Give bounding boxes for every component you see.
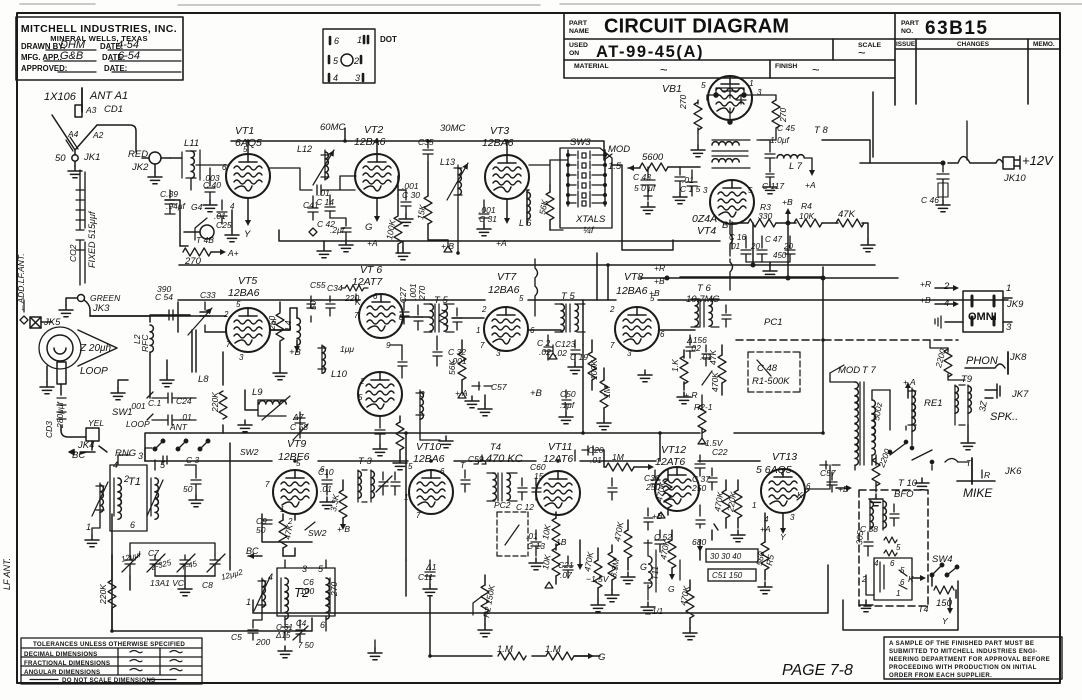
svg-text:T: T (966, 458, 972, 468)
svg-text:JK6: JK6 (1004, 466, 1022, 477)
svg-text:VT12: VT12 (661, 444, 686, 456)
svg-text:6: 6 (440, 467, 445, 476)
svg-text:RNG: RNG (115, 448, 136, 459)
svg-text:280μμf: 280μμf (55, 401, 65, 429)
svg-text:.01: .01 (590, 455, 602, 465)
svg-text:.01: .01 (526, 531, 538, 541)
svg-text:+ R: + R (684, 390, 697, 400)
svg-text:C 13: C 13 (527, 541, 545, 551)
svg-text:3: 3 (496, 349, 501, 358)
svg-text:.003: .003 (203, 173, 220, 183)
svg-text:1: 1 (280, 505, 284, 514)
svg-text:R: R (984, 470, 990, 480)
svg-text:470K: 470K (712, 491, 725, 513)
svg-text:Y: Y (244, 229, 251, 240)
svg-text:T 7: T 7 (862, 365, 876, 376)
svg-text:220K: 220K (725, 491, 739, 514)
svg-text:4: 4 (874, 559, 879, 568)
svg-text:−1.5V: −1.5V (586, 574, 610, 584)
svg-text:+A: +A (496, 238, 507, 248)
svg-text:1: 1 (1006, 283, 1011, 294)
svg-text:C34: C34 (327, 283, 343, 293)
svg-text:150: 150 (936, 598, 953, 609)
svg-text:A4: A4 (67, 129, 79, 139)
svg-text:T 3: T 3 (358, 456, 372, 467)
svg-text:1.0μf: 1.0μf (770, 135, 790, 145)
svg-text:L12: L12 (297, 144, 312, 154)
svg-text:C25: C25 (216, 220, 232, 230)
svg-text:2: 2 (223, 310, 229, 319)
svg-text:7 50: 7 50 (298, 641, 314, 650)
svg-text:6AQ5: 6AQ5 (235, 137, 262, 149)
svg-text:3: 3 (420, 390, 425, 399)
svg-text:2: 2 (359, 377, 365, 386)
svg-text:4: 4 (113, 460, 118, 470)
svg-text:VT3: VT3 (490, 125, 509, 137)
svg-text:C5: C5 (231, 632, 242, 642)
svg-text:15K: 15K (415, 203, 428, 220)
svg-text:+A: +A (760, 524, 771, 534)
svg-text:2: 2 (609, 305, 615, 314)
svg-text:C.39: C.39 (160, 189, 178, 199)
svg-text:C 3: C 3 (186, 455, 200, 465)
svg-text:1μμ: 1μμ (340, 344, 354, 354)
svg-text:+A: +A (367, 238, 378, 248)
svg-text:JK5: JK5 (43, 317, 61, 328)
svg-text:470 KC: 470 KC (486, 453, 523, 465)
svg-text:.02: .02 (555, 348, 567, 358)
svg-text:L4: L4 (283, 320, 293, 330)
svg-text:7: 7 (354, 311, 359, 320)
svg-text:+B: +B (838, 484, 849, 494)
svg-text:VT13: VT13 (772, 451, 797, 463)
svg-text:SW2: SW2 (240, 447, 259, 457)
svg-text:VT8: VT8 (624, 271, 643, 283)
svg-text:C35: C35 (418, 137, 434, 147)
svg-text:SPK..: SPK.. (990, 411, 1018, 423)
svg-text:12BA6: 12BA6 (616, 285, 648, 297)
svg-text:+R: +R (920, 279, 931, 289)
svg-text:C 43: C 43 (633, 172, 651, 182)
svg-text:6: 6 (890, 559, 895, 568)
svg-text:A2: A2 (92, 130, 104, 140)
svg-text:C21: C21 (558, 560, 574, 570)
svg-text:L10: L10 (331, 369, 348, 380)
svg-text:5: 5 (160, 460, 166, 470)
svg-text:Δ15: Δ15 (275, 631, 291, 640)
svg-text:K: K (908, 574, 914, 584)
svg-text:B: B (722, 220, 729, 231)
svg-text:250: 250 (267, 316, 277, 331)
svg-text:3.3M: 3.3M (608, 557, 621, 578)
svg-text:12BA6: 12BA6 (488, 284, 520, 296)
svg-text:3.3K: 3.3K (328, 493, 341, 512)
svg-text:CO2: CO2 (68, 244, 78, 262)
svg-text:BFO: BFO (894, 489, 914, 500)
svg-text:C8: C8 (202, 580, 213, 590)
svg-text:1.5: 1.5 (608, 161, 622, 172)
svg-text:MIKE: MIKE (963, 486, 993, 500)
svg-text:8: 8 (399, 313, 404, 322)
svg-text:270: 270 (329, 582, 339, 597)
svg-text:13A1 VC: 13A1 VC (150, 578, 185, 588)
svg-text:5: 5 (896, 543, 901, 552)
svg-text:T 4B: T 4B (196, 235, 214, 245)
svg-text:C 19: C 19 (570, 352, 588, 362)
svg-text:+B: +B (289, 347, 302, 358)
svg-text:500z: 500z (871, 401, 884, 422)
svg-text:50: 50 (183, 484, 193, 494)
svg-text:FIXED 515μμf: FIXED 515μμf (87, 210, 97, 268)
svg-text:3: 3 (138, 451, 143, 461)
svg-text:+12V: +12V (1022, 153, 1054, 168)
svg-text:R5: R5 (764, 554, 776, 567)
svg-text:C20: C20 (588, 445, 604, 455)
svg-text:0Z4A: 0Z4A (692, 213, 717, 225)
svg-text:C7: C7 (148, 548, 159, 558)
svg-text:CD1: CD1 (104, 104, 123, 115)
svg-text:C 58: C 58 (290, 422, 308, 432)
svg-text:15: 15 (534, 471, 544, 481)
svg-text:C 47: C 47 (765, 235, 782, 244)
svg-text:JK2: JK2 (131, 162, 149, 173)
svg-text:100: 100 (300, 586, 314, 596)
svg-text:MOD: MOD (608, 144, 630, 155)
svg-text:VT4: VT4 (697, 225, 716, 237)
svg-text:C55: C55 (310, 280, 326, 290)
svg-text:12BA6: 12BA6 (354, 136, 386, 148)
svg-text:7: 7 (265, 480, 270, 489)
svg-text:C59: C59 (468, 454, 484, 464)
svg-text:5: 5 (408, 462, 413, 471)
svg-text:3: 3 (302, 564, 307, 574)
svg-text:G: G (598, 652, 605, 663)
svg-text:¼f: ¼f (583, 225, 595, 236)
svg-text:T 5: T 5 (434, 295, 448, 306)
svg-text:C 30: C 30 (402, 190, 420, 200)
svg-text:PHON: PHON (966, 355, 998, 367)
svg-text:.94μf: .94μf (166, 201, 186, 211)
svg-text:LF ANT.: LF ANT. (2, 558, 12, 590)
svg-text:2: 2 (943, 281, 950, 292)
svg-text:12AT7: 12AT7 (352, 276, 383, 288)
svg-text:12AT6: 12AT6 (655, 456, 685, 468)
svg-text:+A: +A (805, 180, 816, 190)
svg-text:200: 200 (255, 637, 270, 647)
svg-text:C 45: C 45 (777, 123, 795, 133)
svg-text:3: 3 (1006, 322, 1012, 333)
svg-text:12μμf: 12μμf (120, 550, 142, 564)
svg-text:C 31: C 31 (479, 214, 497, 224)
svg-text:1: 1 (752, 501, 756, 510)
svg-text:R2-1: R2-1 (694, 402, 713, 412)
svg-text:R2 150K: R2 150K (481, 584, 497, 619)
svg-text:VB1: VB1 (662, 83, 682, 95)
svg-text:7: 7 (610, 341, 615, 350)
svg-text:C 12: C 12 (516, 502, 534, 512)
svg-text:6: 6 (222, 163, 227, 172)
svg-text:C 16: C 16 (729, 233, 746, 242)
svg-text:T 8: T 8 (814, 125, 828, 136)
svg-text:4: 4 (944, 298, 949, 309)
svg-text:270: 270 (184, 256, 202, 267)
svg-text:1: 1 (896, 589, 900, 598)
svg-text:T4: T4 (490, 442, 501, 453)
svg-text:470K: 470K (582, 551, 595, 573)
svg-text:L13: L13 (440, 157, 455, 167)
svg-text:JK9: JK9 (1006, 299, 1024, 310)
svg-text:220K: 220K (210, 392, 220, 413)
svg-text:3: 3 (703, 186, 708, 195)
svg-text:6: 6 (373, 292, 378, 301)
svg-text:470K: 470K (678, 585, 691, 607)
svg-text:9: 9 (386, 341, 391, 350)
svg-text:50: 50 (55, 153, 66, 164)
svg-text:RED: RED (128, 149, 148, 160)
svg-text:ANT A1: ANT A1 (89, 90, 128, 102)
svg-text:390: 390 (157, 284, 171, 294)
svg-text:6: 6 (530, 326, 535, 335)
svg-text:1.M: 1.M (545, 644, 561, 655)
svg-text:5: 5 (900, 566, 905, 575)
svg-text:ANT: ANT (169, 422, 188, 432)
svg-text:Y: Y (780, 532, 787, 542)
svg-text:LOOP: LOOP (126, 419, 150, 429)
svg-text:C 1 5: C 1 5 (680, 184, 701, 194)
svg-text:+B: +B (652, 511, 663, 521)
svg-text:470K: 470K (612, 521, 625, 543)
svg-text:4: 4 (268, 572, 273, 582)
svg-text:PC2: PC2 (494, 500, 511, 510)
svg-text:+ A: + A (455, 388, 468, 398)
svg-text:VT 6: VT 6 (360, 264, 382, 276)
svg-text:+ B: + B (441, 241, 454, 251)
svg-text:.01: .01 (318, 188, 330, 198)
svg-text:MOD: MOD (838, 365, 860, 376)
svg-text:SW4: SW4 (932, 554, 953, 565)
svg-text:.2μf: .2μf (330, 225, 346, 235)
svg-text:JK8: JK8 (1009, 352, 1027, 363)
svg-text:.1μf: .1μf (560, 400, 576, 410)
svg-text:7: 7 (480, 341, 485, 350)
svg-text:T 6: T 6 (697, 283, 711, 294)
svg-text:30MC: 30MC (440, 123, 465, 134)
svg-text:12μμ2: 12μμ2 (220, 567, 244, 582)
svg-text:C22: C22 (712, 447, 728, 457)
svg-text:1: 1 (476, 326, 480, 335)
svg-text:T9: T9 (961, 374, 973, 385)
svg-text:C27: C27 (398, 287, 408, 303)
svg-text:XTALS: XTALS (575, 214, 606, 225)
svg-text:3Z: 3Z (977, 400, 989, 413)
svg-text:.07: .07 (560, 570, 572, 580)
svg-text:1: 1 (749, 78, 754, 88)
svg-text:Δ7: Δ7 (292, 412, 304, 422)
svg-text:C 48: C 48 (757, 363, 778, 374)
svg-text:6: 6 (806, 482, 811, 491)
svg-text:T4: T4 (918, 604, 929, 614)
svg-text:5: 5 (236, 300, 241, 309)
svg-text:C57: C57 (491, 382, 507, 392)
svg-text:1: 1 (246, 597, 251, 607)
svg-text:←ADD.LF.ANT.: ←ADD.LF.ANT. (16, 253, 26, 312)
svg-text:330: 330 (758, 211, 772, 221)
svg-text:C 46: C 46 (921, 195, 939, 205)
svg-text:220K: 220K (98, 584, 108, 605)
svg-text:C 14: C 14 (316, 197, 334, 207)
svg-text:12BA6: 12BA6 (413, 453, 445, 465)
svg-text:2-325: 2-325 (149, 558, 173, 572)
svg-text:+ A: + A (903, 377, 916, 387)
svg-text:12AT6: 12AT6 (543, 453, 573, 465)
svg-text:C10: C10 (318, 467, 334, 477)
svg-text:5: 5 (318, 564, 324, 574)
svg-text:12BA6: 12BA6 (482, 137, 514, 149)
svg-text:5: 5 (243, 145, 248, 154)
svg-text:305: 305 (854, 530, 865, 545)
svg-text:5: 5 (519, 294, 524, 303)
svg-text:T: T (460, 460, 466, 470)
svg-text:Y: Y (942, 616, 949, 626)
svg-text:10.7MC: 10.7MC (686, 294, 719, 305)
svg-text:JK1: JK1 (83, 152, 100, 163)
svg-text:RFC: RFC (140, 334, 150, 352)
svg-text:100K: 100K (589, 360, 599, 380)
svg-text:T1: T1 (128, 476, 141, 488)
svg-text:VT5: VT5 (238, 275, 257, 287)
svg-text:LOOP: LOOP (80, 366, 108, 377)
svg-text:50: 50 (308, 300, 318, 310)
svg-text:Δ1: Δ1 (425, 562, 437, 572)
svg-text:1B: 1B (556, 537, 567, 547)
svg-text:G4: G4 (191, 202, 203, 212)
svg-text:12BA6: 12BA6 (228, 287, 260, 299)
svg-text:GREEN: GREEN (90, 293, 121, 303)
svg-text:20: 20 (783, 242, 793, 251)
svg-text:C33: C33 (200, 290, 216, 300)
svg-text:60MC: 60MC (320, 122, 345, 133)
svg-text:1X106: 1X106 (44, 91, 77, 103)
svg-text:L 6: L 6 (519, 218, 531, 228)
svg-text:G: G (668, 584, 675, 594)
svg-text:10K: 10K (799, 211, 814, 221)
svg-text:1: 1 (404, 493, 408, 502)
svg-text:3: 3 (790, 513, 795, 522)
svg-text:BC: BC (72, 450, 85, 461)
svg-text:G: G (365, 222, 372, 233)
svg-text:R1-500K: R1-500K (752, 376, 790, 387)
svg-text:C.1: C.1 (148, 398, 162, 408)
svg-text:K: K (797, 490, 803, 500)
svg-text:C57: C57 (820, 468, 836, 478)
svg-text:12BE6: 12BE6 (278, 451, 310, 463)
svg-text:Z 20μh: Z 20μh (79, 343, 111, 354)
svg-text:VT7: VT7 (497, 271, 517, 283)
svg-text:C24: C24 (176, 396, 192, 406)
svg-text:C50: C50 (560, 389, 576, 399)
svg-text:6: 6 (320, 620, 325, 630)
svg-text:6: 6 (900, 578, 905, 587)
svg-text:R4: R4 (801, 201, 812, 211)
svg-text:10K: 10K (540, 523, 553, 540)
svg-text:2: 2 (481, 305, 487, 314)
svg-text:5: 5 (358, 393, 363, 402)
svg-text:470K: 470K (658, 539, 671, 561)
svg-text:L9: L9 (252, 387, 263, 398)
svg-text:47K: 47K (708, 350, 718, 365)
svg-text:C 2: C 2 (537, 338, 551, 348)
svg-text:OMNI: OMNI (968, 311, 997, 323)
svg-text:1: 1 (86, 522, 91, 532)
svg-text:SW2: SW2 (308, 528, 327, 538)
svg-text:5 0 μf: 5 0 μf (634, 183, 657, 193)
svg-text:+B: +B (649, 288, 660, 298)
svg-text:1.K: 1.K (670, 359, 680, 372)
svg-text:L 7: L 7 (789, 161, 803, 172)
svg-text:56K: 56K (447, 360, 457, 375)
svg-text:BC: BC (246, 546, 259, 556)
svg-text:1M: 1M (602, 385, 612, 398)
svg-text:10K: 10K (540, 553, 553, 570)
svg-text:100K: 100K (384, 219, 397, 241)
svg-text:2200: 2200 (933, 347, 948, 369)
svg-text:7-45: 7-45 (180, 559, 198, 572)
svg-text:RE1: RE1 (924, 398, 942, 409)
svg-text:2200: 2200 (876, 447, 892, 469)
svg-text:3: 3 (239, 353, 244, 362)
svg-text:YEL: YEL (88, 418, 104, 428)
svg-text:K: K (355, 297, 361, 307)
svg-text:VT10: VT10 (416, 441, 441, 453)
svg-text:47K: 47K (282, 523, 295, 540)
svg-text:+B: +B (782, 197, 793, 207)
svg-text:C 117: C 117 (762, 181, 784, 191)
svg-text:1M: 1M (612, 452, 625, 462)
svg-text:T 10: T 10 (898, 478, 918, 489)
svg-text:3: 3 (627, 349, 632, 358)
svg-text:SW3: SW3 (570, 137, 591, 148)
svg-text:JK3: JK3 (92, 303, 110, 314)
svg-text:VT2: VT2 (364, 124, 383, 136)
svg-text:JK10: JK10 (1003, 173, 1026, 184)
svg-text:+B: +B (530, 388, 543, 399)
svg-text:47K: 47K (838, 209, 856, 220)
svg-text:A3: A3 (85, 105, 97, 115)
svg-text:L11: L11 (184, 138, 199, 149)
svg-text:5: 5 (748, 186, 753, 195)
svg-text:4: 4 (230, 202, 235, 211)
svg-text:5600: 5600 (642, 152, 664, 163)
svg-text:5: 5 (701, 80, 706, 90)
svg-text:270: 270 (417, 286, 427, 301)
svg-text:6: 6 (130, 520, 135, 530)
svg-text:1.M: 1.M (497, 644, 513, 655)
svg-text:A+: A+ (227, 248, 239, 258)
svg-text:CD3: CD3 (44, 421, 54, 438)
svg-text:JK7: JK7 (1011, 389, 1029, 400)
svg-text:C11: C11 (418, 572, 433, 582)
svg-text:3: 3 (757, 88, 762, 97)
svg-text:C4: C4 (296, 619, 307, 628)
svg-text:.01: .01 (320, 484, 332, 494)
svg-text:VT11: VT11 (548, 441, 572, 453)
svg-text:+B: +B (920, 295, 931, 305)
svg-text:470K: 470K (654, 481, 667, 503)
svg-text:.02: .02 (539, 347, 551, 357)
svg-text:450: 450 (773, 251, 787, 260)
svg-text:.001: .001 (129, 401, 146, 411)
svg-text:VT1: VT1 (235, 125, 254, 137)
